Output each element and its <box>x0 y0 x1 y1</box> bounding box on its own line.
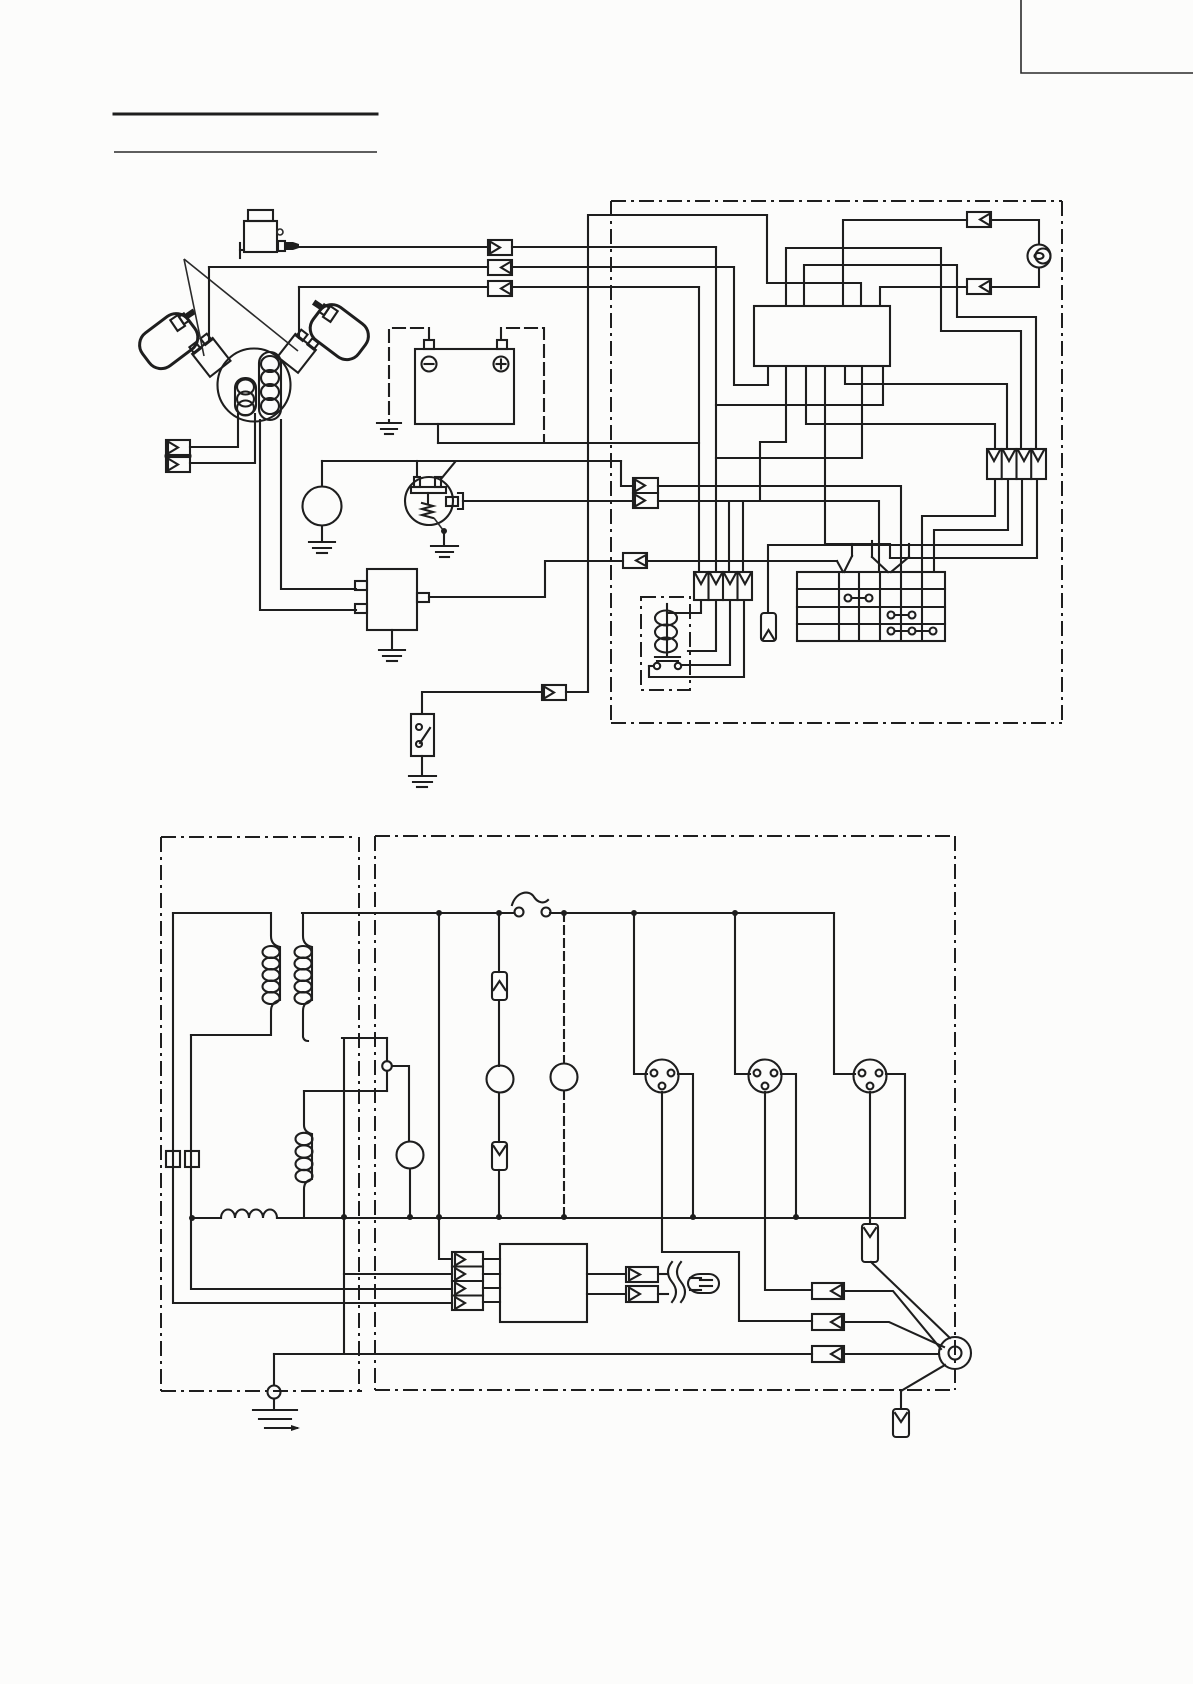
earth lead <box>273 1399 275 1409</box>
junction lamp1 bus <box>496 1214 502 1220</box>
wire tap A drop <box>173 913 452 1303</box>
grid terminal block <box>797 572 945 641</box>
bullet connector primary <box>488 240 512 255</box>
bullet terminal rec3 <box>862 1224 878 1262</box>
grid switch row2 <box>845 595 873 602</box>
panel enclosure bottom <box>375 836 955 1390</box>
grid switch row3 <box>888 612 916 619</box>
main winding left <box>263 913 281 1035</box>
lamp2 branch <box>563 913 565 1063</box>
junction rec1 bus <box>690 1214 696 1220</box>
panel pilot lamp <box>1028 245 1051 268</box>
wire battery to diode block cell1 <box>438 442 699 444</box>
pilot branch upper diode <box>498 913 500 972</box>
receptacle3 feed <box>834 913 855 1074</box>
wire stop switch connector to panel <box>566 691 588 693</box>
generator enclosure <box>161 837 362 1391</box>
wire exciter to connector pair lower <box>190 414 255 463</box>
engine stop switch feed wire <box>422 692 542 714</box>
ground stop switch <box>409 776 436 787</box>
receptacle3 return <box>886 1074 905 1217</box>
AVR output upper <box>587 1273 626 1275</box>
wire lamp return to box pin <box>880 287 967 306</box>
earth drop <box>273 1354 275 1385</box>
stop switch ground lead <box>421 756 423 775</box>
junction lamp2 bus <box>561 1214 567 1220</box>
wire coil to right plug cap <box>298 287 300 338</box>
wire box pin drop A <box>760 366 786 501</box>
receptacle1 feed <box>634 913 647 1074</box>
junction rec2 bus <box>793 1214 799 1220</box>
wire sensor plug to pair bottom cell <box>463 500 633 502</box>
resistor pack <box>987 449 1046 479</box>
wire lamp to oil sensor bus <box>321 461 323 486</box>
connector pair engine left <box>166 440 190 472</box>
oil pressure sensor <box>405 477 463 525</box>
AVR unit box <box>500 1244 587 1322</box>
wire diode cell2 to relay <box>688 600 716 651</box>
receptacle2 ground pin <box>765 1092 812 1290</box>
wire box pin to resistor cell4 <box>804 265 1036 449</box>
wire sensor internal to ground dot <box>434 518 443 530</box>
battery output strap <box>437 424 439 443</box>
earth pass-through <box>268 1386 281 1399</box>
relay coil <box>655 604 680 661</box>
wire box pin to diode cell3 <box>716 366 883 405</box>
exciter coil left <box>235 378 256 416</box>
receptacle 1 <box>646 1060 679 1093</box>
earth terminal external lead <box>901 1365 945 1409</box>
wire ground A to terminal <box>844 1291 941 1349</box>
receptacle2 return <box>781 1074 796 1217</box>
ground regulator <box>379 650 405 661</box>
regulator rectifier <box>355 569 429 630</box>
earth wire <box>274 1353 812 1355</box>
wire stop circuit riser <box>588 215 767 692</box>
receptacle 3 <box>854 1060 887 1093</box>
receptacle2 feed <box>735 913 750 1074</box>
wire primary to diode block <box>512 246 716 248</box>
receptacle1 return <box>678 1074 693 1217</box>
diode cell3 drop <box>728 501 730 572</box>
wire diode cell4 to relay contact2 <box>649 600 744 677</box>
wire box pin to resistor cell2 <box>845 366 1007 449</box>
battery positive cable (dashed) <box>501 328 544 443</box>
wire winding left bottom <box>191 1034 270 1036</box>
ground generator earth <box>253 1410 300 1431</box>
wire rec3 bullet to terminal <box>871 1262 950 1338</box>
wire resistor cell2 out <box>934 479 1008 572</box>
spade plug 2 into grid <box>872 541 909 572</box>
main bus top right <box>550 912 834 914</box>
junction meter bus <box>407 1214 413 1220</box>
field winding <box>296 1091 313 1217</box>
junction cell1 bus <box>436 1214 442 1220</box>
panel enclosure border <box>611 201 1062 723</box>
wire diode to lamp <box>498 1000 500 1066</box>
wire field top <box>304 1090 387 1092</box>
wire charge coil to regulator upper <box>281 420 356 589</box>
pilot lamp engine <box>303 487 342 526</box>
spark plug cap left <box>134 306 231 377</box>
wire lamp return <box>991 268 1039 287</box>
bullet connector regulator output <box>623 553 647 568</box>
meter return <box>409 1169 411 1217</box>
wire diode2 to bus <box>498 1170 500 1217</box>
bullet connector ground B <box>812 1314 844 1330</box>
relay contacts <box>649 663 681 669</box>
wire regulator output <box>429 561 623 597</box>
receptacle 2 <box>749 1060 782 1093</box>
bullet connector lamp feed <box>967 212 991 227</box>
wire neutral to conn cell2 <box>344 1273 452 1275</box>
AVR output lower <box>587 1293 626 1295</box>
wire ground C to terminal <box>844 1353 939 1355</box>
diode block <box>694 572 752 600</box>
sensor diagonal lead <box>441 462 455 479</box>
bullet connector lamp return <box>967 279 991 294</box>
title rule 1 <box>114 113 377 116</box>
battery BAT <box>415 340 514 424</box>
bullet connector stop switch <box>542 685 566 700</box>
wire lower lead to diode cell1 <box>512 286 699 288</box>
wire main winding tap A <box>173 912 270 914</box>
wire lamp ground lead <box>321 526 323 541</box>
grid switch row4 <box>888 628 937 635</box>
brush to field <box>386 1071 388 1091</box>
fuse box A <box>166 1151 180 1167</box>
bullet connector stop lead <box>488 260 512 275</box>
wire stop lead to U riser <box>512 266 734 268</box>
single diode <box>761 613 776 641</box>
bottom bus <box>189 1210 905 1222</box>
panel lamp 1 <box>487 1066 514 1093</box>
receptacle3 ground pin <box>869 1092 871 1224</box>
relay enclosure <box>641 597 690 690</box>
receptacle1 ground pin <box>662 1092 812 1321</box>
ground oil sensor <box>431 546 458 557</box>
bullet connector AVR upper <box>626 1267 658 1282</box>
connector pair panel feed <box>633 478 658 508</box>
diode lamp upper <box>492 972 507 1000</box>
ground lamp <box>309 542 335 553</box>
wire lamp2 to bus <box>563 1091 565 1217</box>
diode cell4 drop <box>742 501 744 572</box>
fuse main <box>512 893 551 917</box>
neutral drop <box>343 1038 345 1354</box>
ground battery negative <box>377 423 401 434</box>
wire resistor cell1 out <box>922 479 995 572</box>
wire diode cell2 drop <box>715 247 717 572</box>
brush feed <box>386 1038 388 1061</box>
HT lead pointer line to right plug <box>184 259 298 351</box>
wire sensor bus to pair top cell <box>621 461 633 486</box>
ignition coil T1 body <box>240 210 299 258</box>
wire box pin to grid spade2 <box>825 366 890 558</box>
connector bank AVR <box>452 1252 483 1310</box>
wire stop riser step <box>767 215 861 306</box>
bullet connector AVR lower <box>626 1286 658 1302</box>
wire exciter to connector pair upper <box>190 414 238 447</box>
meter <box>397 1142 424 1169</box>
wire bus to conn cell1 <box>439 913 452 1259</box>
wire box pin to lamp connector <box>843 220 967 306</box>
page corner box <box>1021 0 1193 73</box>
wire connector to panel spade <box>647 560 837 562</box>
wire lamp1 to diode2 <box>498 1093 500 1142</box>
wire coil to left plug cap <box>208 267 210 340</box>
wire pair top to grid <box>658 486 901 572</box>
wire resistor cell3 out <box>768 479 1022 613</box>
spade plug 1 into grid <box>837 544 852 572</box>
panel lamp 2 <box>551 1064 578 1091</box>
brush ring <box>382 1061 392 1071</box>
wire oil sensor top bus <box>322 460 621 462</box>
wire diode cell1 to relay coil <box>667 600 701 613</box>
spark plug cap right <box>278 297 375 373</box>
wire winding right bottom <box>342 1037 387 1039</box>
wire resistor cell4 out <box>890 479 1037 558</box>
wire charge coil to regulator lower <box>260 420 356 610</box>
engine stop switch <box>411 714 434 756</box>
battery negative cable (dashed) <box>389 328 429 421</box>
wire connector to panel lamp <box>991 220 1039 244</box>
wire stop lead <box>209 266 488 268</box>
title rule 2 <box>114 151 377 153</box>
wire tap B drop <box>191 1035 452 1289</box>
cable break squiggle <box>668 1262 685 1302</box>
magneto flywheel <box>218 349 291 422</box>
regulator ground lead <box>391 630 393 649</box>
bullet external earth <box>893 1409 909 1437</box>
wires to sensing plug <box>658 1274 668 1294</box>
charge coil right <box>259 352 281 420</box>
wire U under box <box>734 267 768 385</box>
main bus top <box>302 912 514 914</box>
wire diode cell1 drop <box>698 287 700 572</box>
diode lamp lower <box>492 1142 507 1170</box>
wire plug lead lower <box>299 286 488 288</box>
earth terminal stud <box>939 1337 971 1369</box>
wire box pin to resistor cell1 <box>806 366 995 449</box>
wires bank to AVR <box>483 1259 500 1302</box>
junction bus dots <box>436 910 442 916</box>
bullet connector lower <box>488 281 512 296</box>
bullet connector ground A <box>812 1283 844 1299</box>
HT lead pointer line to left plug <box>184 259 204 356</box>
wire box pin to resistor cell3 <box>786 248 1021 449</box>
wire ground B to terminal <box>844 1322 944 1347</box>
wire sensor ground lead <box>443 531 445 545</box>
bullet connector ground C <box>812 1346 844 1362</box>
wire box pin to diode cell4 <box>716 366 862 458</box>
control unit box <box>754 306 890 366</box>
sensor tab drop <box>416 461 418 477</box>
wire diode cell3 to relay contact <box>682 600 730 665</box>
sensing plug <box>688 1274 719 1293</box>
wire pair bottom to grid <box>658 501 879 572</box>
main winding right <box>295 913 313 1041</box>
junction neutral bus <box>341 1214 347 1220</box>
fuse box B <box>185 1151 199 1167</box>
wire ignition primary <box>299 246 488 248</box>
wire brush to meter <box>392 1066 409 1141</box>
